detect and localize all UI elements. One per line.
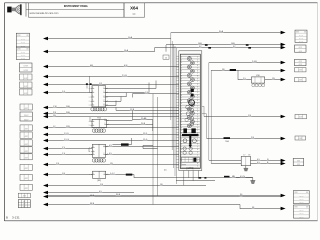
svg-text:4: 4 bbox=[181, 89, 182, 91]
svg-text:1.4 C: 1.4 C bbox=[110, 173, 115, 175]
svg-text:2: 2 bbox=[181, 157, 182, 159]
svg-text:--- ---: --- --- bbox=[299, 38, 303, 40]
svg-text:###: ### bbox=[24, 86, 28, 88]
svg-text:b: b bbox=[107, 92, 108, 94]
svg-text:7: 7 bbox=[181, 98, 182, 100]
svg-text:2: 2 bbox=[181, 133, 182, 135]
svg-text:6: 6 bbox=[181, 144, 182, 146]
svg-text:b: b bbox=[107, 104, 108, 106]
svg-text:###: ### bbox=[25, 136, 29, 138]
svg-text:8: 8 bbox=[181, 125, 182, 127]
svg-text:a: a bbox=[89, 151, 90, 153]
svg-text:30 B: 30 B bbox=[116, 194, 121, 196]
svg-text:16 A: 16 A bbox=[124, 49, 129, 52]
svg-text:--- ---: --- --- bbox=[21, 42, 25, 44]
svg-text:2: 2 bbox=[197, 59, 198, 61]
svg-text:##: ## bbox=[23, 206, 25, 208]
svg-text:b: b bbox=[107, 101, 108, 103]
svg-text:b: b bbox=[108, 120, 109, 122]
svg-text:5: 5 bbox=[197, 117, 198, 119]
svg-text:--- ---: --- --- bbox=[299, 210, 303, 212]
svg-text:--- ---: --- --- bbox=[299, 216, 303, 218]
svg-text:20 B: 20 B bbox=[141, 123, 146, 125]
svg-text:8: 8 bbox=[197, 149, 198, 151]
svg-text:[88]: [88] bbox=[97, 180, 101, 182]
svg-text:1: 1 bbox=[197, 155, 198, 157]
svg-text:8: 8 bbox=[181, 149, 182, 151]
svg-text:--- ---: --- --- bbox=[21, 52, 25, 54]
svg-text:2 GB: 2 GB bbox=[252, 61, 257, 63]
svg-text:3: 3 bbox=[181, 160, 182, 162]
svg-text:5: 5 bbox=[197, 141, 198, 143]
svg-text:6: 6 bbox=[197, 119, 198, 121]
svg-text:X64: X64 bbox=[130, 5, 138, 10]
svg-text:7: 7 bbox=[181, 146, 182, 148]
svg-text:1: 1 bbox=[181, 106, 182, 108]
svg-text:6: 6 bbox=[197, 70, 198, 72]
svg-text:8: 8 bbox=[197, 100, 198, 102]
svg-text:00: 00 bbox=[133, 13, 136, 16]
svg-text:3: 3 bbox=[197, 136, 198, 138]
svg-text:1 W: 1 W bbox=[53, 106, 57, 108]
svg-text:###: ### bbox=[25, 168, 29, 170]
svg-text:1: 1 bbox=[181, 155, 182, 157]
svg-text:3: 3 bbox=[197, 160, 198, 162]
svg-text:1 N: 1 N bbox=[56, 163, 60, 165]
svg-text:9: 9 bbox=[197, 78, 198, 80]
svg-text:3: 3 bbox=[181, 87, 182, 89]
svg-text:####: #### bbox=[23, 66, 28, 68]
svg-text:9: 9 bbox=[181, 152, 182, 154]
svg-text:4: 4 bbox=[181, 163, 182, 165]
svg-text:--- ---: --- --- bbox=[299, 195, 303, 197]
svg-text:7: 7 bbox=[197, 146, 198, 148]
svg-text:R12: R12 bbox=[97, 117, 102, 119]
svg-text:--- ---: --- --- bbox=[21, 38, 25, 40]
svg-text:###: ### bbox=[25, 158, 29, 160]
svg-text:a: a bbox=[89, 125, 90, 127]
svg-text:5: 5 bbox=[197, 166, 198, 168]
svg-text:6: 6 bbox=[181, 95, 182, 97]
svg-text:8: 8 bbox=[197, 125, 198, 127]
svg-text:b: b bbox=[107, 154, 108, 156]
svg-text:3: 3 bbox=[181, 136, 182, 138]
svg-text:6: 6 bbox=[181, 119, 182, 121]
svg-text:--- ---: --- --- bbox=[299, 202, 303, 204]
svg-text:##: ## bbox=[23, 201, 25, 203]
svg-text:###: ### bbox=[25, 129, 29, 131]
svg-text:###: ### bbox=[299, 51, 303, 53]
svg-text:INSTRUMENT PANEL: INSTRUMENT PANEL bbox=[64, 5, 89, 8]
svg-text:1 G: 1 G bbox=[62, 91, 66, 93]
svg-text:--- ---: --- --- bbox=[299, 41, 303, 43]
svg-text:www.manuals-for-cars.com: www.manuals-for-cars.com bbox=[30, 12, 59, 15]
svg-text:6 M: 6 M bbox=[124, 65, 128, 67]
svg-text:4: 4 bbox=[181, 114, 182, 116]
svg-text:####: #### bbox=[23, 70, 28, 72]
svg-text:6: 6 bbox=[197, 95, 198, 97]
svg-text:###: ### bbox=[25, 178, 29, 180]
svg-text:1.5 G: 1.5 G bbox=[64, 139, 69, 141]
svg-text:--- ---: --- --- bbox=[299, 213, 303, 215]
svg-text:9: 9 bbox=[181, 103, 182, 105]
svg-text:1: 1 bbox=[181, 81, 182, 83]
svg-text:4: 4 bbox=[197, 163, 198, 165]
svg-text:6: 6 bbox=[197, 144, 198, 146]
svg-text:2: 2 bbox=[181, 59, 182, 61]
svg-text:9: 9 bbox=[197, 127, 198, 129]
svg-text:a: a bbox=[89, 154, 90, 156]
svg-text:738A: 738A bbox=[225, 140, 230, 143]
svg-text:1: 1 bbox=[197, 130, 198, 132]
svg-text:--- ---: --- --- bbox=[21, 58, 25, 60]
svg-text:3: 3 bbox=[197, 111, 198, 113]
svg-text:15: 15 bbox=[165, 57, 167, 59]
svg-text:5: 5 bbox=[181, 141, 182, 143]
svg-text:1: 1 bbox=[181, 130, 182, 132]
svg-text:(0): (0) bbox=[164, 170, 167, 172]
svg-text:a: a bbox=[89, 101, 90, 103]
svg-text:2: 2 bbox=[197, 84, 198, 86]
svg-text:7: 7 bbox=[181, 73, 182, 75]
svg-text:b: b bbox=[107, 146, 108, 148]
svg-text:1 R: 1 R bbox=[99, 83, 103, 85]
svg-text:4: 4 bbox=[197, 65, 198, 67]
svg-text:a: a bbox=[89, 104, 90, 106]
svg-text:b: b bbox=[107, 88, 108, 90]
svg-text:15 G: 15 G bbox=[143, 139, 148, 141]
svg-text:8: 8 bbox=[197, 76, 198, 78]
svg-text:a: a bbox=[89, 96, 90, 98]
svg-text:0.5 N: 0.5 N bbox=[240, 176, 245, 178]
svg-text:18: 18 bbox=[248, 154, 250, 156]
svg-text:4: 4 bbox=[197, 114, 198, 116]
svg-text:6: 6 bbox=[181, 70, 182, 72]
svg-text:2: 2 bbox=[197, 108, 198, 110]
svg-text:2 N: 2 N bbox=[53, 112, 57, 114]
svg-text:2.5 B: 2.5 B bbox=[122, 75, 127, 77]
svg-text:48 B: 48 B bbox=[90, 195, 95, 197]
svg-text:5: 5 bbox=[181, 92, 182, 94]
svg-text:4: 4 bbox=[197, 138, 198, 140]
svg-text:7: 7 bbox=[197, 122, 198, 124]
svg-text:7: 7 bbox=[181, 122, 182, 124]
svg-text:###: ### bbox=[23, 196, 27, 198]
svg-text:3: 3 bbox=[197, 87, 198, 89]
svg-text:###: ### bbox=[25, 151, 29, 153]
svg-text:8: 8 bbox=[181, 100, 182, 102]
svg-text:3: 3 bbox=[197, 62, 198, 64]
svg-text:b: b bbox=[108, 174, 109, 176]
svg-text:2: 2 bbox=[181, 108, 182, 110]
svg-text:1: 1 bbox=[197, 106, 198, 108]
svg-text:5: 5 bbox=[197, 68, 198, 70]
svg-text:1: 1 bbox=[181, 57, 182, 59]
svg-text:3: 3 bbox=[181, 62, 182, 64]
svg-text:###: ### bbox=[24, 78, 28, 80]
svg-text:###: ### bbox=[25, 108, 29, 110]
svg-text:a: a bbox=[89, 174, 90, 176]
svg-text:9: 9 bbox=[181, 127, 182, 129]
svg-text:--- ---: --- --- bbox=[299, 199, 303, 201]
svg-text:--- ---: --- --- bbox=[21, 55, 25, 57]
svg-text:7: 7 bbox=[197, 73, 198, 75]
svg-text:2: 2 bbox=[197, 133, 198, 135]
svg-text:30 A: 30 A bbox=[219, 30, 224, 33]
svg-text:###: ### bbox=[24, 93, 28, 95]
svg-text:--- ---: --- --- bbox=[299, 35, 303, 37]
svg-text:5: 5 bbox=[181, 68, 182, 70]
svg-text:7: 7 bbox=[197, 98, 198, 100]
svg-text:4: 4 bbox=[181, 65, 182, 67]
svg-text:###: ### bbox=[299, 47, 303, 49]
svg-text:4: 4 bbox=[181, 138, 182, 140]
svg-text:2: 2 bbox=[197, 157, 198, 159]
svg-text:25 AB: 25 AB bbox=[141, 117, 147, 120]
svg-text:5: 5 bbox=[197, 92, 198, 94]
svg-text:17: 17 bbox=[243, 154, 245, 156]
svg-text:8: 8 bbox=[181, 76, 182, 78]
svg-text:38 B: 38 B bbox=[90, 203, 95, 205]
svg-text:###: ### bbox=[299, 138, 303, 140]
svg-text:1.5 D: 1.5 D bbox=[64, 133, 69, 135]
svg-text:[1471]: [1471] bbox=[187, 167, 194, 170]
svg-text:15 D: 15 D bbox=[143, 133, 148, 135]
svg-text:9: 9 bbox=[181, 78, 182, 80]
svg-text:3: 3 bbox=[181, 111, 182, 113]
svg-text:1: 1 bbox=[197, 57, 198, 59]
svg-text:###: ### bbox=[25, 188, 29, 190]
svg-text:6M: 6M bbox=[90, 65, 93, 67]
svg-text:9: 9 bbox=[197, 103, 198, 105]
svg-text:2: 2 bbox=[181, 84, 182, 86]
svg-text:b: b bbox=[108, 124, 109, 126]
svg-text:B: B bbox=[6, 216, 8, 220]
svg-text:5: 5 bbox=[181, 117, 182, 119]
svg-text:10 A: 10 A bbox=[128, 36, 133, 39]
svg-text:5: 5 bbox=[181, 166, 182, 168]
svg-text:3-131: 3-131 bbox=[12, 216, 20, 220]
svg-text:9: 9 bbox=[197, 152, 198, 154]
svg-text:###: ### bbox=[25, 144, 29, 146]
svg-text:4: 4 bbox=[197, 89, 198, 91]
svg-text:1: 1 bbox=[197, 81, 198, 83]
svg-text:a: a bbox=[89, 121, 90, 123]
svg-text:b: b bbox=[107, 96, 108, 98]
